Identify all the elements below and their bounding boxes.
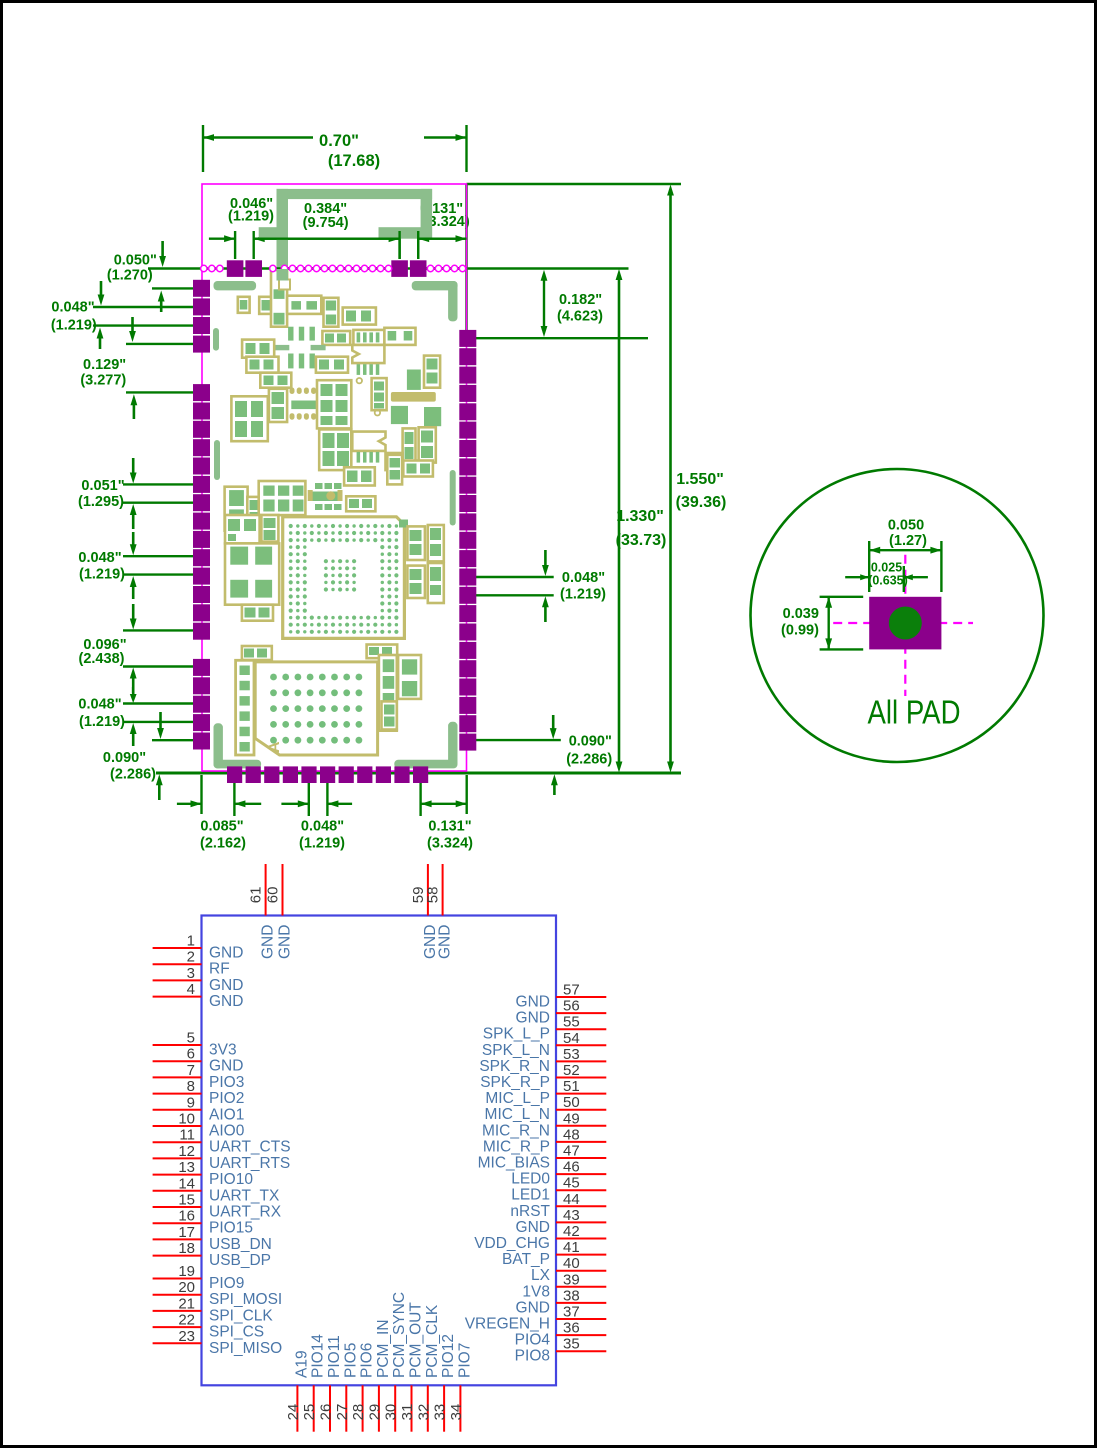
pin 35 PIO8 (right): [515, 1336, 607, 1365]
svg-text:PIO6: PIO6: [359, 1343, 376, 1378]
component C5: [324, 298, 339, 327]
svg-text:SPK_R_N: SPK_R_N: [479, 1058, 550, 1075]
svg-text:5: 5: [187, 1030, 195, 1047]
dimension line through top pad row: [148, 267, 629, 270]
dimension 1.550" (39.36) overall height: [667, 185, 726, 773]
component U-notch a: [352, 345, 384, 363]
pin 34 PIO7 (bottom): [448, 1343, 474, 1432]
svg-text:MIC_L_N: MIC_L_N: [485, 1106, 550, 1123]
silk corner mark top-right: [412, 281, 458, 321]
svg-text:1: 1: [187, 933, 195, 950]
svg-text:SPI_CS: SPI_CS: [209, 1324, 264, 1341]
dimension 0.129" (3.277) left group gap: [80, 317, 194, 419]
svg-text:MIC_R_P: MIC_R_P: [483, 1138, 550, 1155]
dimension 0.70" (17.68) top width: [203, 125, 467, 172]
antenna leg lower segment: [277, 269, 289, 281]
svg-text:6: 6: [187, 1046, 195, 1063]
component C32: [225, 515, 260, 543]
pin 37 VREGEN_H (right): [465, 1304, 607, 1333]
extension line board top edge to 1.550 dim: [467, 183, 682, 186]
component C9b: [384, 328, 415, 345]
svg-text:16: 16: [178, 1208, 195, 1225]
pin 2 RF (left): [153, 949, 230, 978]
top pads (pins 58-61): [227, 260, 427, 277]
svg-text:PIO8: PIO8: [515, 1348, 550, 1365]
svg-text:(9.754): (9.754): [303, 215, 349, 231]
svg-text:34: 34: [448, 1404, 465, 1421]
svg-text:SPK_L_N: SPK_L_N: [482, 1042, 550, 1059]
dimension overlay ticks over antenna: [254, 231, 467, 269]
castellation holes top row: [201, 265, 466, 271]
svg-text:All PAD: All PAD: [868, 694, 961, 731]
pin 32 PCM_CLK (bottom): [415, 1304, 441, 1432]
component C24d: [403, 461, 433, 477]
pin 41 BAT_P (right): [502, 1239, 606, 1268]
svg-text:GND: GND: [260, 925, 277, 959]
svg-text:22: 22: [178, 1312, 195, 1329]
svg-text:1.330": 1.330": [616, 508, 664, 525]
connector strip J1: [236, 660, 254, 755]
pin 58 GND (top): [425, 864, 454, 959]
svg-text:GND: GND: [209, 977, 243, 994]
svg-text:0.048": 0.048": [301, 819, 344, 835]
svg-text:UART_RTS: UART_RTS: [209, 1155, 290, 1172]
right edge castellated pads (pins 35-57): [459, 330, 476, 751]
svg-text:(1.219): (1.219): [79, 567, 125, 583]
svg-text:56: 56: [563, 998, 580, 1015]
pin 24 A19 (bottom): [285, 1350, 311, 1431]
component C35: [242, 605, 273, 621]
svg-text:(2.286): (2.286): [566, 752, 612, 768]
pin 42 VDD_CHG (right): [474, 1223, 606, 1252]
svg-text:46: 46: [563, 1159, 580, 1176]
silk strip left edge a: [213, 328, 219, 351]
svg-text:50: 50: [563, 1094, 580, 1111]
component C26: [344, 467, 375, 485]
svg-text:2: 2: [187, 949, 195, 966]
component C6: [343, 308, 376, 325]
pin 46 LED0 (right): [511, 1159, 606, 1188]
component C24c: [386, 453, 403, 470]
svg-text:(1.295): (1.295): [78, 494, 124, 510]
pin 38 GND (right): [516, 1287, 607, 1316]
svg-text:PIO4: PIO4: [515, 1332, 551, 1349]
component C11: [316, 357, 348, 373]
svg-text:17: 17: [178, 1224, 195, 1241]
svg-text:PIO9: PIO9: [209, 1275, 244, 1292]
svg-text:21: 21: [178, 1295, 195, 1312]
pin 8 PIO2 (left): [153, 1078, 245, 1107]
svg-text:(0.99): (0.99): [781, 623, 819, 639]
component C27c: [259, 481, 306, 515]
svg-text:36: 36: [563, 1320, 580, 1337]
svg-text:0.131": 0.131": [428, 819, 471, 835]
svg-text:18: 18: [178, 1240, 195, 1257]
pin 53 SPK_R_N (right): [479, 1046, 606, 1075]
component C40: [367, 645, 398, 659]
pin 21 SPI_CLK (left): [153, 1295, 274, 1324]
component C37a: [407, 526, 425, 560]
pin 27 PIO5 (bottom): [334, 1343, 360, 1432]
pin 4 GND (left): [153, 981, 244, 1010]
pin 29 PCM_IN (bottom): [366, 1319, 392, 1431]
dimension 0.096" (2.438) left lower gap: [79, 604, 196, 693]
component C29: [346, 496, 375, 511]
dimension line through bottom pad row: [156, 772, 681, 775]
svg-text:23: 23: [178, 1328, 195, 1345]
dimension 0.050" (1.270) left top: [107, 241, 200, 312]
svg-text:AIO1: AIO1: [209, 1106, 244, 1123]
svg-text:33: 33: [432, 1404, 449, 1421]
pin 56 GND (right): [516, 998, 607, 1027]
svg-text:PIO14: PIO14: [310, 1334, 327, 1378]
svg-text:0.090": 0.090": [569, 734, 612, 750]
svg-text:PIO3: PIO3: [209, 1074, 244, 1091]
svg-text:UART_TX: UART_TX: [209, 1187, 280, 1204]
svg-text:28: 28: [350, 1404, 367, 1421]
pin 52 SPK_R_P (right): [480, 1062, 606, 1091]
silk corner mark bottom-left: [214, 723, 262, 768]
pin 36 PIO4 (right): [515, 1320, 607, 1349]
svg-text:42: 42: [563, 1223, 580, 1240]
dimension 0.046" (1.219) top pad pitch: [209, 196, 274, 259]
component C28 oval-pad package: [308, 483, 343, 510]
svg-text:0.051": 0.051": [81, 478, 124, 494]
svg-text:0.048": 0.048": [78, 697, 121, 713]
svg-text:1V8: 1V8: [522, 1283, 550, 1300]
svg-text:0.048": 0.048": [51, 300, 94, 316]
capacitor array bars c: [357, 364, 380, 375]
pin 28 PIO6 (bottom): [350, 1343, 376, 1432]
svg-text:VDD_CHG: VDD_CHG: [474, 1235, 550, 1252]
silk bar pair: [274, 345, 325, 350]
svg-text:0.050": 0.050": [114, 253, 157, 269]
capacitor array bars a: [288, 327, 315, 341]
svg-text:0.048": 0.048": [78, 550, 121, 566]
svg-text:55: 55: [563, 1014, 580, 1031]
svg-text:(17.68): (17.68): [328, 152, 380, 170]
svg-text:(3.324): (3.324): [427, 836, 473, 852]
svg-text:49: 49: [563, 1110, 580, 1127]
component C8: [322, 331, 350, 345]
component C39: [242, 646, 272, 660]
svg-text:(1.219): (1.219): [228, 209, 274, 225]
detail label All PAD: [868, 694, 961, 731]
svg-text:(2.162): (2.162): [200, 836, 246, 852]
dimension 0.048" (1.219) bottom pad pitch: [281, 780, 352, 852]
svg-text:8: 8: [187, 1078, 195, 1095]
component C4: [287, 296, 321, 314]
svg-text:PCM_OUT: PCM_OUT: [408, 1302, 425, 1378]
svg-text:(2.286): (2.286): [110, 767, 156, 783]
svg-text:GND: GND: [277, 925, 294, 959]
dimension 0.131" (3.324) top right margin: [418, 201, 470, 242]
component C24a: [403, 428, 416, 468]
capacitor array bars b: [288, 354, 315, 369]
svg-text:(4.623): (4.623): [557, 309, 603, 325]
pin 57 GND (right): [516, 982, 607, 1011]
dimension 0.048" (1.219) right pad pitch: [468, 550, 606, 622]
svg-text:AIO0: AIO0: [209, 1123, 245, 1140]
svg-text:39: 39: [563, 1271, 580, 1288]
pin 16 PIO15 (left): [153, 1208, 253, 1237]
svg-text:PIO11: PIO11: [326, 1335, 343, 1378]
component C27a: [225, 487, 248, 531]
component C24b: [419, 427, 436, 462]
pin 51 MIC_L_P (right): [485, 1078, 606, 1107]
svg-text:25: 25: [301, 1404, 318, 1421]
svg-text:GND: GND: [516, 994, 550, 1011]
component C3 tall strip: [271, 270, 287, 327]
oval pads component: [290, 388, 318, 420]
svg-text:0.129": 0.129": [83, 357, 126, 373]
pin 30 PCM_SYNC (bottom): [383, 1292, 409, 1432]
component C43b: [398, 655, 421, 699]
pin 45 LED1 (right): [511, 1175, 606, 1204]
svg-text:LX: LX: [531, 1267, 551, 1284]
svg-text:0.025: 0.025: [871, 561, 902, 575]
svg-text:15: 15: [178, 1192, 195, 1209]
svg-text:0.048": 0.048": [562, 570, 605, 586]
svg-text:14: 14: [178, 1175, 195, 1192]
component C16: [372, 378, 387, 410]
svg-text:51: 51: [563, 1078, 580, 1095]
svg-text:PCM_IN: PCM_IN: [375, 1319, 392, 1378]
detail dimension 0.025 (0.635): [845, 561, 928, 593]
svg-text:7: 7: [187, 1062, 195, 1079]
svg-text:GND: GND: [516, 1010, 550, 1027]
detail pad hole (green): [889, 607, 922, 640]
pin 20 SPI_MOSI (left): [153, 1279, 283, 1308]
antenna meander trace: [259, 189, 432, 280]
svg-text:41: 41: [563, 1239, 580, 1256]
svg-text:PIO15: PIO15: [209, 1220, 253, 1237]
BGA chip U1 (BlueCore): [283, 517, 408, 639]
svg-text:GND: GND: [516, 1299, 550, 1316]
svg-text:58: 58: [425, 887, 442, 904]
pin 39 1V8 (right): [522, 1271, 606, 1300]
svg-text:PCM_SYNC: PCM_SYNC: [391, 1292, 408, 1378]
svg-text:0.050: 0.050: [888, 518, 924, 534]
pin 44 nRST (right): [510, 1191, 606, 1220]
pin 50 MIC_L_N (right): [485, 1094, 607, 1123]
pin 10 AIO0 (left): [153, 1111, 245, 1140]
svg-text:(1.270): (1.270): [107, 268, 153, 284]
pin 17 USB_DN (left): [153, 1224, 272, 1253]
pin 12 UART_RTS (left): [153, 1143, 291, 1172]
pin 26 PIO11 (bottom): [318, 1335, 344, 1431]
svg-text:27: 27: [334, 1404, 351, 1421]
svg-text:43: 43: [563, 1207, 580, 1224]
svg-text:SPI_MOSI: SPI_MOSI: [209, 1291, 282, 1308]
svg-text:37: 37: [563, 1304, 580, 1321]
svg-text:57: 57: [563, 982, 580, 999]
pin 49 MIC_R_N (right): [482, 1110, 606, 1139]
svg-text:PIO12: PIO12: [440, 1334, 457, 1378]
dimension 0.048" (1.219) left pad pitch: [51, 281, 200, 349]
dimension 0.048" (1.219) left bottom: [78, 687, 196, 746]
svg-text:MIC_BIAS: MIC_BIAS: [478, 1155, 550, 1172]
svg-text:LED0: LED0: [511, 1171, 550, 1188]
svg-text:(33.73): (33.73): [616, 532, 667, 549]
svg-text:11: 11: [179, 1127, 195, 1144]
pin 59 GND (top): [410, 864, 439, 959]
component C22: [319, 429, 351, 470]
svg-text:20: 20: [178, 1279, 195, 1296]
svg-text:GND: GND: [209, 945, 243, 962]
svg-text:29: 29: [366, 1404, 383, 1421]
detail crosshair magenta dashed: [833, 555, 973, 696]
board outline (magenta): [202, 184, 467, 771]
svg-text:MIC_L_P: MIC_L_P: [485, 1090, 550, 1107]
dimension 0.182" (4.623) right top: [467, 184, 649, 338]
pin 7 PIO3 (left): [153, 1062, 245, 1091]
svg-text:24: 24: [285, 1404, 302, 1421]
svg-text:MIC_R_N: MIC_R_N: [482, 1122, 550, 1139]
svg-text:VREGEN_H: VREGEN_H: [465, 1316, 550, 1333]
left edge castellated pads (pins 1-23): [193, 280, 210, 750]
svg-text:35: 35: [563, 1336, 580, 1353]
svg-text:SPI_CLK: SPI_CLK: [209, 1307, 273, 1324]
svg-text:52: 52: [563, 1062, 580, 1079]
pin 31 PCM_OUT (bottom): [399, 1302, 425, 1432]
via circle b: [375, 410, 380, 415]
svg-text:9: 9: [187, 1094, 195, 1111]
pin 61 GND (top): [248, 864, 277, 959]
svg-text:19: 19: [178, 1263, 195, 1280]
svg-text:GND: GND: [209, 993, 243, 1010]
bare pad pair: [391, 406, 441, 426]
svg-text:(39.36): (39.36): [676, 494, 727, 511]
svg-text:SPI_MISO: SPI_MISO: [209, 1340, 282, 1357]
detail view circle: [751, 469, 1044, 762]
component C43a: [379, 655, 397, 731]
component C2: [259, 297, 274, 314]
pin 22 SPI_CS (left): [153, 1312, 265, 1341]
pin 19 PIO9 (left): [153, 1263, 245, 1292]
detail dimension 0.039 (0.99): [781, 597, 863, 650]
svg-text:USB_DN: USB_DN: [209, 1236, 272, 1253]
dimension 0.384" (9.754) top pads span: [254, 201, 419, 259]
pin 43 GND (right): [516, 1207, 607, 1236]
dimension 0.131" (3.324) bottom right: [421, 775, 474, 852]
svg-text:(0.635): (0.635): [868, 574, 908, 588]
svg-text:PIO2: PIO2: [209, 1090, 244, 1107]
svg-text:0.182": 0.182": [559, 292, 602, 308]
component C25: [387, 455, 402, 485]
svg-text:PIO10: PIO10: [209, 1171, 253, 1188]
svg-text:(1.27): (1.27): [889, 533, 927, 549]
svg-text:0.085": 0.085": [200, 819, 243, 835]
bare pad a: [407, 370, 421, 390]
pin 18 USB_DP (left): [153, 1240, 271, 1269]
svg-text:13: 13: [178, 1159, 195, 1176]
pin 3 GND (left): [153, 965, 244, 994]
pin 33 PIO12 (bottom): [432, 1334, 458, 1432]
svg-text:RF: RF: [209, 961, 230, 978]
pin 11 UART_CTS (left): [153, 1127, 291, 1156]
svg-text:47: 47: [563, 1143, 580, 1160]
svg-text:(1.219): (1.219): [560, 587, 606, 603]
svg-text:UART_CTS: UART_CTS: [209, 1139, 291, 1156]
svg-text:GND: GND: [209, 1058, 243, 1075]
dimension 1.330" (33.73) pad row height: [616, 269, 667, 773]
pin 1 GND (left): [153, 933, 244, 962]
pin 60 GND (top): [265, 864, 294, 959]
svg-text:(2.438): (2.438): [79, 651, 125, 667]
svg-text:4: 4: [187, 981, 195, 998]
component C19: [269, 389, 287, 422]
svg-text:31: 31: [399, 1404, 416, 1421]
svg-text:SPK_R_P: SPK_R_P: [480, 1074, 550, 1091]
svg-text:61: 61: [248, 887, 265, 904]
pin 9 AIO1 (left): [153, 1094, 245, 1123]
pin 13 PIO10 (left): [153, 1159, 254, 1188]
svg-text:(1.219): (1.219): [51, 318, 97, 334]
silk strip right edge a: [450, 470, 456, 526]
component C12b: [246, 357, 278, 373]
component C1: [238, 297, 250, 313]
component C9: [353, 330, 384, 345]
svg-text:32: 32: [415, 1404, 432, 1421]
svg-text:38: 38: [563, 1287, 580, 1304]
pin 5 3V3 (left): [153, 1030, 237, 1059]
IC body rectangle: [202, 916, 557, 1386]
component C37b: [428, 525, 444, 561]
pin 47 MIC_BIAS (right): [478, 1143, 607, 1172]
silk strip left edge b: [214, 440, 220, 480]
svg-text:48: 48: [563, 1126, 580, 1143]
svg-text:44: 44: [563, 1191, 580, 1208]
svg-text:(3.277): (3.277): [80, 373, 126, 389]
svg-text:3V3: 3V3: [209, 1042, 237, 1059]
svg-text:nRST: nRST: [510, 1203, 550, 1220]
svg-text:GND: GND: [437, 925, 454, 959]
component C38b: [428, 563, 444, 603]
pin 54 SPK_L_N (right): [482, 1030, 606, 1059]
silk bar mid: [391, 392, 436, 402]
svg-text:A19: A19: [293, 1350, 310, 1378]
dimension 0.090" (2.286) left bottom margin: [103, 712, 204, 800]
pin 55 SPK_L_P (right): [483, 1014, 607, 1043]
component C27b: [247, 497, 261, 527]
svg-text:0.090": 0.090": [103, 750, 146, 766]
flash chip U2: [255, 662, 377, 755]
svg-text:BAT_P: BAT_P: [502, 1251, 550, 1268]
component C12c: [260, 373, 291, 388]
svg-text:LED1: LED1: [511, 1187, 550, 1204]
svg-text:3: 3: [187, 965, 195, 982]
detail pad (purple): [869, 597, 941, 650]
svg-text:(1.219): (1.219): [79, 714, 125, 730]
pin 48 MIC_R_P (right): [483, 1126, 606, 1155]
svg-text:10: 10: [178, 1111, 195, 1128]
small tan pad below antenna leg: [279, 280, 290, 290]
component C12a: [242, 340, 274, 358]
svg-text:30: 30: [383, 1404, 400, 1421]
svg-text:40: 40: [563, 1255, 580, 1272]
pin 25 PIO14 (bottom): [301, 1334, 327, 1432]
detail dimension 0.050 (1.27): [869, 518, 941, 593]
svg-text:PCM_CLK: PCM_CLK: [424, 1304, 441, 1378]
dimension 0.090" (2.286) right bottom margin: [468, 715, 612, 795]
svg-text:0.70": 0.70": [319, 132, 359, 150]
pin 23 SPI_MISO (left): [153, 1328, 283, 1357]
svg-text:0.039: 0.039: [783, 606, 819, 622]
svg-text:54: 54: [563, 1030, 580, 1047]
pin 40 LX (right): [531, 1255, 606, 1284]
component C38a: [407, 566, 425, 598]
